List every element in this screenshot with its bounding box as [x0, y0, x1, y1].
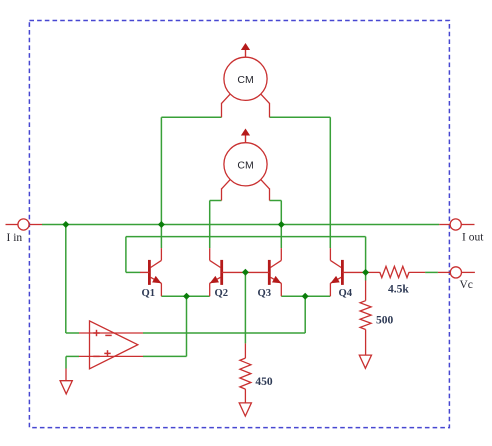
terminal I in — [6, 219, 43, 244]
svg-text:Q3: Q3 — [258, 288, 272, 299]
wire: 4.5k to Vc terminal — [425, 271, 438, 273]
wire: op-amp inverting input to ground — [66, 355, 79, 357]
wire: main horizontal net (I in to I out) — [42, 224, 439, 226]
svg-text:CM: CM — [237, 159, 253, 171]
svg-text:CM: CM — [237, 74, 253, 86]
ground (below R450) — [239, 403, 251, 416]
wire: op-amp upper output run — [143, 332, 305, 334]
node: main net / CM1 left / Q1 collector — [158, 221, 165, 228]
ground (op-amp inverting input) — [60, 369, 72, 394]
node: Q4 base / 4.5k / R500 — [362, 269, 369, 276]
node: main net / op-amp input riser — [62, 221, 69, 228]
wire: CM1 right leg to Q4 collector — [270, 116, 331, 118]
node: Q3/Q4 emitters — [302, 293, 309, 300]
wire: CM2 right leg to main net and Q3 collector — [270, 200, 282, 202]
wire: base bus (Q1 base to Q4 base) — [126, 236, 366, 238]
svg-text:I in: I in — [7, 232, 23, 244]
schematic boundary (dashed box) — [29, 21, 449, 428]
resistor 500 — [360, 281, 393, 356]
node: Q1/Q2 emitters — [183, 293, 190, 300]
transistor Q2 — [210, 248, 246, 299]
svg-text:Q4: Q4 — [339, 288, 353, 299]
svg-text:4.5k: 4.5k — [388, 283, 409, 295]
resistor 4.5k — [366, 266, 426, 295]
wire: Q3/Q4 emitter tie — [281, 295, 330, 297]
wire: CM2 left leg to Q2 collector — [210, 200, 222, 202]
svg-text:Q1: Q1 — [142, 288, 156, 299]
transistor Q1 — [140, 248, 161, 299]
wire: op-amp lower output run — [143, 355, 187, 357]
transistor Q3 — [245, 248, 281, 299]
svg-text:450: 450 — [255, 376, 273, 388]
current mirror CM2 — [222, 129, 270, 201]
wire: Q1/Q2 emitter tie — [161, 295, 209, 297]
svg-text:I out: I out — [462, 232, 484, 244]
wire: riser from main net to op-amp non-inverting input — [65, 225, 67, 334]
resistor 450 — [240, 343, 273, 403]
current mirror CM1 — [222, 43, 270, 117]
node: main net / CM2 right / Q3 collector — [278, 221, 285, 228]
node: Q2/Q3 bases / R450 — [242, 269, 249, 276]
wire: CM1 left leg to main net and Q1 collector — [161, 116, 221, 118]
op-amp U1 (fully differential) — [79, 321, 143, 369]
svg-text:Vc: Vc — [460, 279, 473, 291]
ground (below R500) — [359, 355, 371, 368]
svg-text:Q2: Q2 — [215, 288, 229, 299]
wire: R500 top connection — [365, 272, 367, 280]
svg-text:500: 500 — [376, 314, 394, 326]
wire: R450 top connection — [244, 272, 246, 343]
wire: riser Q3/Q4 emitters to op-amp upper output — [304, 296, 306, 333]
terminal I out — [439, 219, 484, 244]
transistor Q4 — [330, 248, 365, 299]
wire: riser Q1/Q2 emitters to op-amp lower output — [186, 296, 188, 356]
terminal Vc — [438, 267, 475, 291]
